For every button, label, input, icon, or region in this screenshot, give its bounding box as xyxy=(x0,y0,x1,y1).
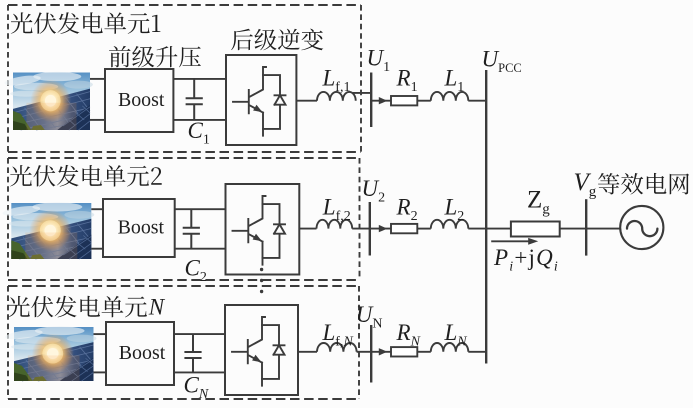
inverter (IGBT bridge) unit 1 xyxy=(226,55,296,145)
line inductor L1 xyxy=(431,92,469,101)
wire Lf to bus UN xyxy=(357,351,372,353)
PV unit N dashed box xyxy=(8,286,359,399)
bus bar U2 xyxy=(369,202,371,256)
wire bus U2 to R2 with arrow xyxy=(370,225,391,232)
wire Lf to bus U2 xyxy=(352,228,370,230)
wire bus U1 to R1 with arrow xyxy=(371,97,391,104)
wire PV to Boost bottom unit N xyxy=(94,371,107,373)
resistor R2 xyxy=(391,224,417,233)
wire RN to LN xyxy=(417,351,431,353)
svg-text:Boost: Boost xyxy=(119,342,166,364)
wire Boost to inverter bottom unit 1 xyxy=(173,119,226,121)
label 等效电网 xyxy=(598,173,689,195)
inverter (IGBT bridge) unit N xyxy=(225,305,298,395)
Boost converter unit N xyxy=(106,322,174,385)
wire bus UN to RN with arrow xyxy=(371,348,391,355)
PV unit N title xyxy=(8,295,166,320)
PCC bus U_PCC xyxy=(485,70,487,364)
wire PV to Boost top unit 2 xyxy=(91,208,103,210)
PV unit 2 dashed box xyxy=(8,158,360,280)
wire R1 to L1 xyxy=(417,100,431,102)
wire PV to Boost top unit N xyxy=(94,333,107,335)
wire Boost to inverter top unit 2 xyxy=(175,208,226,210)
capacitor C2 unit 2 xyxy=(183,209,200,249)
resistor R1 xyxy=(391,96,417,105)
filter inductor Lf,2 xyxy=(317,220,353,229)
wire LN to PCC bus xyxy=(468,351,486,353)
wire Zg to Vg bus xyxy=(560,228,587,230)
grid impedance Zg xyxy=(511,222,560,237)
svg-text:Boost: Boost xyxy=(118,216,165,238)
bus bar UN xyxy=(370,325,372,383)
wire PV to Boost top unit 1 xyxy=(90,78,105,80)
capacitor CN unit N xyxy=(184,334,201,372)
wire Boost to inverter bottom unit N xyxy=(174,371,225,373)
wire Vg to AC source xyxy=(586,228,620,230)
PV unit 2 title xyxy=(10,165,162,187)
wire L1 to PCC bus xyxy=(468,100,486,102)
continuation ellipsis dots xyxy=(260,268,263,293)
label 后级逆变 xyxy=(231,29,323,51)
wire Boost to inverter top unit 1 xyxy=(173,78,226,80)
bus bar U1 xyxy=(370,73,372,128)
PV array photo unit 1 xyxy=(4,72,93,130)
wire Lf to bus U1 xyxy=(353,92,372,94)
wire Boost to inverter top unit N xyxy=(174,333,225,335)
svg-text:N: N xyxy=(148,295,166,320)
PV unit 1 title xyxy=(11,12,161,34)
resistor RN xyxy=(391,347,417,356)
PV unit 1 dashed box xyxy=(8,5,361,152)
filter inductor Lf,1 xyxy=(317,92,356,101)
label 前级升压 xyxy=(109,46,201,68)
capacitor C1 unit 1 xyxy=(186,79,203,120)
wire L2 to PCC bus xyxy=(468,228,486,230)
wire inverter to Lf unit N xyxy=(298,351,317,353)
AC source equivalent grid xyxy=(620,206,663,249)
wire R2 to L2 xyxy=(417,228,431,230)
wire PCC to Zg xyxy=(486,228,511,230)
bus bar Vg xyxy=(585,199,587,255)
wire PV to Boost bottom unit 1 xyxy=(90,119,105,121)
PV array photo unit N xyxy=(5,326,97,381)
filter inductor Lf,N xyxy=(317,343,357,352)
PV array photo unit 2 xyxy=(2,202,94,259)
wire inverter to Lf unit 2 xyxy=(299,228,316,230)
Boost converter unit 1 xyxy=(105,69,173,132)
svg-text:Boost: Boost xyxy=(118,89,165,111)
Boost converter unit 2 xyxy=(103,199,175,257)
line inductor L2 xyxy=(431,220,469,229)
wire Boost to inverter bottom unit 2 xyxy=(175,248,226,250)
power flow arrow Pi+jQi xyxy=(491,238,538,245)
inverter (IGBT bridge) unit 2 xyxy=(226,184,300,275)
line inductor LN xyxy=(431,343,469,352)
wire PV to Boost bottom unit 2 xyxy=(91,248,103,250)
wire inverter to Lf unit 1 xyxy=(296,100,317,102)
